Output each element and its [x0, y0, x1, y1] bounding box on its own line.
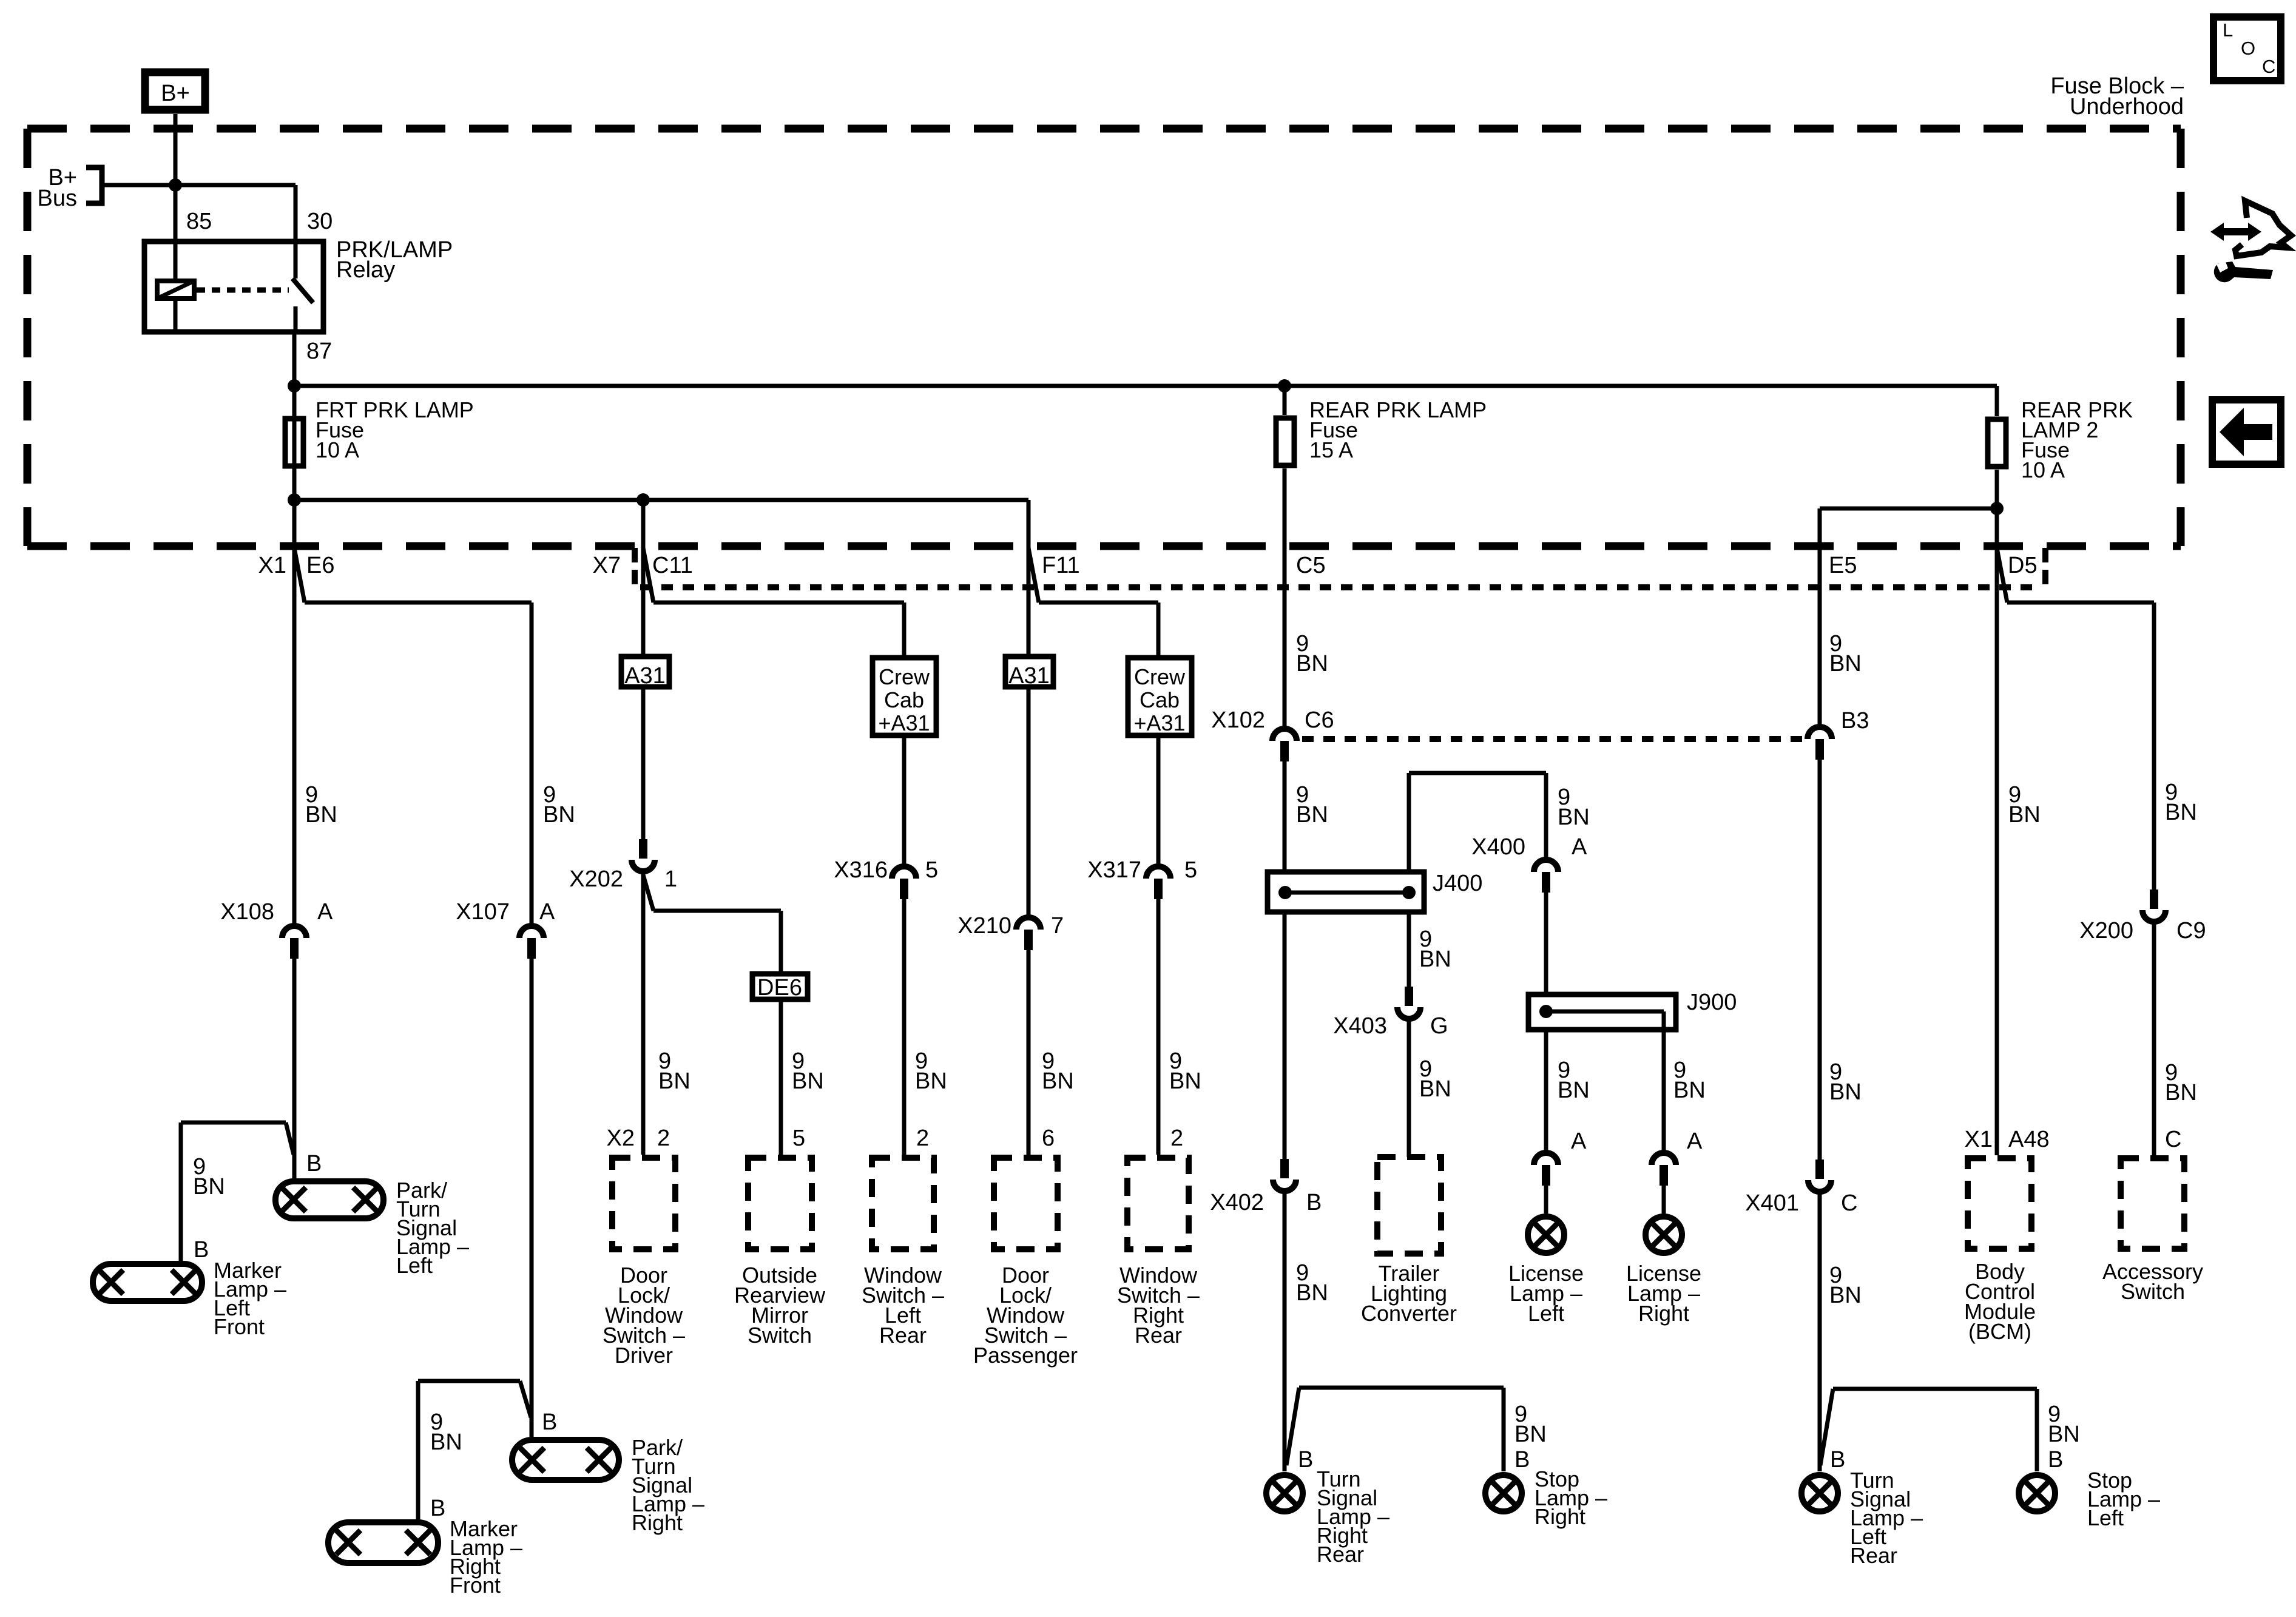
- connector license right pin A: [1652, 1153, 1676, 1165]
- box window switch - right rear: [1127, 1158, 1189, 1249]
- lamp stop - left: [2019, 1475, 2055, 1511]
- node rear rail junction: [1990, 502, 2004, 515]
- svg-text:Right: Right: [1535, 1504, 1585, 1529]
- svg-text:1: 1: [664, 866, 677, 892]
- wire J900 bar to license right: [1662, 1011, 1666, 1152]
- svg-text:BN: BN: [543, 802, 575, 828]
- svg-text:B: B: [542, 1409, 557, 1435]
- connector X107: [519, 926, 544, 938]
- svg-text:O: O: [2241, 38, 2255, 59]
- lamp stop - right: [1485, 1475, 1522, 1511]
- svg-text:Front: Front: [214, 1314, 265, 1339]
- connector license left pin A: [1534, 1153, 1558, 1165]
- svg-text:Switch: Switch: [748, 1323, 812, 1348]
- svg-text:BN: BN: [1558, 1078, 1590, 1103]
- wire D5 branch to accessory switch: [2007, 601, 2154, 605]
- svg-text:D5: D5: [2008, 553, 2038, 578]
- svg-text:2: 2: [916, 1126, 929, 1151]
- svg-text:E5: E5: [1829, 553, 1857, 578]
- box window switch - left rear: [872, 1158, 934, 1249]
- svg-text:C5: C5: [1296, 553, 1326, 578]
- svg-text:Front: Front: [450, 1573, 501, 1598]
- svg-text:X317: X317: [1087, 857, 1141, 883]
- wire X202 branch to DE6: [643, 875, 653, 911]
- svg-text:BN: BN: [1829, 651, 1862, 677]
- svg-text:BN: BN: [1419, 947, 1451, 972]
- wire rail to X400: [1544, 773, 1548, 857]
- wire stop-left branch: [1820, 1389, 1833, 1465]
- svg-text:BN: BN: [1829, 1283, 1862, 1308]
- svg-text:Right: Right: [632, 1510, 683, 1535]
- connector X400 A: [1534, 860, 1558, 872]
- wire front rail: [294, 498, 1028, 502]
- node front rail at 485: [288, 493, 301, 507]
- box door lock/window switch - driver: [612, 1158, 675, 1249]
- svg-text:+A31: +A31: [1133, 711, 1185, 735]
- fuse REAR PRK LAMP 2 10A: [1988, 419, 2006, 467]
- wire F11 branch to crew cab 2: [1039, 601, 1158, 605]
- svg-text:BN: BN: [1296, 802, 1328, 828]
- svg-text:A: A: [1687, 1129, 1703, 1154]
- svg-text:A48: A48: [2008, 1127, 2050, 1152]
- node front rail at 1060: [636, 493, 650, 507]
- wire D5 branch slant: [1997, 548, 2007, 603]
- wire DE6 to mirror switch: [779, 1002, 783, 1155]
- wire X316 to window switch left rear: [902, 899, 907, 1155]
- wire through FRT PRK LAMP fuse: [292, 416, 297, 500]
- svg-text:(BCM): (BCM): [1968, 1319, 2031, 1344]
- lamp turn signal - right rear: [1266, 1475, 1303, 1511]
- wire stop-right branch: [1286, 1388, 1299, 1465]
- svg-text:Bus: Bus: [38, 186, 77, 211]
- svg-text:B: B: [1830, 1447, 1845, 1473]
- box DE6: [752, 974, 808, 999]
- relay coil: [157, 281, 194, 299]
- lamp park/turn signal - left: [275, 1181, 383, 1218]
- connector X401 C: [1815, 1160, 1824, 1179]
- svg-text:BN: BN: [305, 802, 337, 828]
- wire A31 to X202: [641, 689, 646, 839]
- svg-text:L: L: [2223, 19, 2233, 41]
- svg-text:Left: Left: [396, 1253, 433, 1278]
- box Crew Cab +A31 (left rear): [873, 658, 936, 735]
- svg-text:B: B: [1298, 1447, 1313, 1473]
- box accessory switch: [2121, 1158, 2184, 1249]
- fuse FRT PRK LAMP 10A: [285, 419, 303, 466]
- wire X200 to accessory switch: [2152, 922, 2156, 1158]
- svg-text:2: 2: [1170, 1126, 1183, 1151]
- svg-text:BN: BN: [2165, 800, 2197, 825]
- connector X316 pin 5: [892, 866, 916, 879]
- box A31 (passenger): [1005, 657, 1053, 687]
- svg-text:87: 87: [306, 339, 332, 364]
- lamp marker - left front: [93, 1264, 202, 1301]
- wire relay pin 87: [294, 306, 298, 334]
- svg-text:Crew: Crew: [1134, 664, 1186, 689]
- svg-text:B: B: [306, 1151, 322, 1176]
- box Crew Cab +A31 (right rear): [1128, 658, 1192, 735]
- fuse REAR PRK LAMP 15A: [1276, 418, 1294, 465]
- wire X317 to window switch right rear: [1156, 899, 1161, 1155]
- svg-text:Converter: Converter: [1361, 1301, 1457, 1326]
- svg-text:BN: BN: [1419, 1076, 1451, 1102]
- svg-text:X7: X7: [593, 553, 621, 578]
- svg-text:BN: BN: [2048, 1422, 2080, 1447]
- wire to license left lamp: [1544, 1186, 1548, 1214]
- svg-text:Rear: Rear: [1317, 1542, 1364, 1567]
- wire J900 to license left: [1544, 1032, 1548, 1152]
- wire E6 down to park/turn lamp left: [292, 500, 297, 923]
- svg-text:B: B: [430, 1496, 445, 1521]
- wire E6 branch to X107: [305, 601, 532, 605]
- wire X108 to split: [292, 959, 297, 1178]
- box door lock/window switch - passenger: [994, 1158, 1058, 1249]
- wire B3 to X401: [1818, 760, 1822, 1160]
- svg-text:X108: X108: [220, 899, 274, 925]
- svg-text:X402: X402: [1210, 1190, 1264, 1215]
- wire E5 down: [1818, 508, 1822, 725]
- svg-text:E6: E6: [306, 553, 334, 578]
- svg-text:A: A: [317, 899, 333, 925]
- svg-text:BN: BN: [915, 1068, 947, 1094]
- wire J400 top rail: [1409, 771, 1546, 775]
- svg-text:B: B: [1514, 1447, 1530, 1473]
- svg-text:+A31: +A31: [878, 711, 930, 735]
- svg-text:BN: BN: [1042, 1068, 1074, 1094]
- left-arrow reference box: [2212, 400, 2281, 464]
- svg-text:10 A: 10 A: [316, 437, 359, 462]
- connector B3: [1808, 727, 1832, 739]
- svg-text:X102: X102: [1211, 707, 1265, 733]
- wire X102 to J400: [1283, 761, 1287, 869]
- connector X402 B: [1280, 1159, 1289, 1178]
- svg-text:5: 5: [925, 857, 938, 883]
- wire marker-left branch: [286, 1122, 294, 1155]
- wire X402 to turn signal right rear: [1283, 1192, 1287, 1471]
- connector X108: [282, 926, 306, 938]
- box A31 (driver): [621, 657, 669, 687]
- svg-text:Rear: Rear: [1135, 1323, 1182, 1348]
- svg-text:Switch: Switch: [2121, 1279, 2185, 1304]
- svg-text:Right: Right: [1638, 1301, 1689, 1326]
- svg-text:Cab: Cab: [1140, 687, 1180, 712]
- wire F11 branch slant: [1028, 548, 1039, 603]
- svg-text:B+: B+: [161, 81, 190, 106]
- wire B+ to relay coil: [174, 114, 178, 279]
- svg-text:BN: BN: [792, 1068, 824, 1094]
- svg-text:BN: BN: [1296, 651, 1328, 677]
- svg-text:J900: J900: [1687, 990, 1737, 1015]
- svg-text:A: A: [1571, 1129, 1587, 1154]
- svg-text:X2: X2: [607, 1126, 635, 1151]
- wire J400 to X403: [1407, 914, 1411, 987]
- wire rear rail to E5: [1820, 507, 1997, 511]
- svg-text:Cab: Cab: [884, 687, 924, 712]
- connector X210 pin 7: [1016, 917, 1041, 930]
- svg-text:A31: A31: [624, 663, 666, 689]
- connector X102 C6: [1272, 729, 1297, 741]
- wire to license right lamp: [1662, 1186, 1666, 1214]
- wire X400 to J900: [1544, 893, 1548, 992]
- wire crew cab 2 to X317: [1156, 738, 1161, 864]
- svg-text:C11: C11: [652, 553, 693, 578]
- svg-text:B: B: [194, 1237, 209, 1263]
- wire C5 down to X102: [1283, 468, 1287, 726]
- relay PRK/LAMP box: [144, 241, 323, 332]
- svg-text:BN: BN: [1829, 1079, 1862, 1105]
- svg-text:5: 5: [792, 1126, 805, 1151]
- lamp license - left: [1528, 1217, 1564, 1253]
- svg-text:A: A: [1572, 834, 1587, 860]
- svg-text:15 A: 15 A: [1309, 437, 1353, 462]
- lamp park/turn signal - right: [512, 1440, 619, 1480]
- svg-text:B: B: [2048, 1447, 2063, 1473]
- wire D5 down to BCM: [1995, 549, 1999, 1155]
- svg-text:Passenger: Passenger: [973, 1343, 1078, 1368]
- wire X202 to door lock switch driver: [641, 873, 646, 1155]
- connector X200 C9: [2150, 890, 2158, 909]
- box body control module: [1968, 1158, 2031, 1249]
- svg-text:BN: BN: [1673, 1078, 1706, 1103]
- svg-text:J400: J400: [1433, 871, 1482, 896]
- svg-text:Rear: Rear: [1850, 1543, 1897, 1568]
- wire through REAR PRK LAMP fuse: [1283, 386, 1287, 415]
- box trailer lighting converter: [1377, 1157, 1441, 1254]
- relay dashed actuation link: [197, 288, 289, 293]
- svg-text:F11: F11: [1042, 553, 1080, 578]
- svg-text:C: C: [2262, 56, 2275, 77]
- svg-text:Crew: Crew: [879, 664, 930, 689]
- wire fuse2 to E5/D5 junction: [1995, 470, 1999, 549]
- lamp license - right: [1646, 1217, 1682, 1253]
- LOC reference box: [2213, 17, 2281, 81]
- svg-text:C6: C6: [1305, 707, 1334, 733]
- svg-text:Relay: Relay: [336, 257, 395, 283]
- wire A31 to X210: [1027, 689, 1031, 915]
- splice J900: [1528, 994, 1676, 1030]
- svg-text:C: C: [2165, 1127, 2181, 1152]
- separator X7: [632, 548, 638, 587]
- svg-text:BN: BN: [1558, 805, 1590, 830]
- wire X107 to park/turn right lamp: [530, 959, 534, 1437]
- svg-text:X200: X200: [2079, 918, 2133, 944]
- svg-text:10 A: 10 A: [2021, 457, 2065, 482]
- dotted connector row line: [640, 584, 2039, 590]
- connector X202 pin 1: [639, 839, 647, 859]
- svg-text:X403: X403: [1333, 1013, 1387, 1039]
- svg-text:B: B: [1306, 1190, 1322, 1215]
- svg-text:2: 2: [657, 1126, 670, 1151]
- wire coil to relay box bottom: [174, 301, 178, 334]
- wire X401 to turn signal left rear: [1818, 1192, 1822, 1471]
- svg-text:X316: X316: [834, 857, 888, 883]
- svg-text:X210: X210: [957, 913, 1011, 939]
- svg-text:B3: B3: [1841, 708, 1869, 734]
- wire C11 branch to crew cab: [653, 601, 904, 605]
- svg-text:X107: X107: [456, 899, 510, 925]
- box outside rearview mirror switch: [748, 1158, 812, 1249]
- wire X210 to door lock switch passenger: [1027, 950, 1031, 1155]
- svg-text:BN: BN: [1169, 1068, 1201, 1094]
- svg-text:X400: X400: [1471, 834, 1525, 860]
- wire C11 down: [641, 500, 646, 654]
- wire J400 to X402: [1283, 914, 1287, 1159]
- dotted pass-through line X102 to B3: [1302, 736, 1805, 742]
- svg-text:C: C: [1841, 1190, 1857, 1216]
- wire crew cab to X316: [902, 738, 907, 864]
- svg-text:A: A: [539, 899, 555, 925]
- separator after D5: [2042, 548, 2048, 587]
- wire B+ bus: [102, 183, 295, 187]
- svg-text:BN: BN: [430, 1430, 462, 1455]
- wire C11 branch slant: [643, 548, 653, 603]
- svg-text:G: G: [1430, 1013, 1448, 1039]
- svg-text:Driver: Driver: [615, 1343, 673, 1368]
- relay switch blade: [292, 279, 313, 303]
- svg-text:C9: C9: [2176, 918, 2206, 944]
- node B+ bus junction: [169, 178, 182, 192]
- svg-text:A31: A31: [1008, 663, 1050, 689]
- svg-text:X1: X1: [258, 553, 286, 578]
- wire marker-right branch: [520, 1381, 531, 1417]
- wire F11 down: [1027, 500, 1031, 654]
- fuse block - underhood dashed boundary box: [27, 125, 2181, 133]
- svg-text:Underhood: Underhood: [2070, 94, 2184, 120]
- wire rail corner down to REAR PRK LAMP 2 fuse: [1995, 386, 1999, 416]
- svg-text:BN: BN: [1514, 1422, 1547, 1447]
- svg-text:DE6: DE6: [757, 975, 802, 1001]
- wire X403 to trailer converter: [1407, 1019, 1411, 1157]
- svg-text:BN: BN: [2165, 1080, 2197, 1106]
- node rail junction at 485: [288, 379, 301, 393]
- wire pin87 down to rail: [292, 334, 297, 416]
- svg-text:85: 85: [186, 209, 212, 234]
- wire main feed rail: [294, 384, 1997, 388]
- B+ terminal box: [145, 72, 205, 110]
- svg-text:7: 7: [1051, 913, 1064, 939]
- svg-text:BN: BN: [2008, 802, 2041, 828]
- connector-view icon (arrow and wrench): [2210, 201, 2291, 282]
- lamp marker - right front: [328, 1522, 438, 1563]
- splice J400: [1268, 872, 1424, 912]
- svg-text:Left: Left: [1528, 1301, 1564, 1326]
- svg-text:6: 6: [1042, 1126, 1055, 1151]
- svg-text:X401: X401: [1745, 1190, 1799, 1216]
- node rail junction at 2117: [1278, 379, 1291, 393]
- svg-text:Left: Left: [2087, 1505, 2124, 1530]
- wire E6 branch slant: [294, 548, 305, 603]
- svg-text:BN: BN: [658, 1068, 690, 1094]
- svg-text:Rear: Rear: [879, 1323, 927, 1348]
- lamp turn signal - left rear: [1801, 1475, 1838, 1511]
- connector X317 pin 5: [1146, 866, 1170, 879]
- svg-text:5: 5: [1184, 857, 1197, 883]
- svg-text:X202: X202: [569, 866, 623, 892]
- svg-text:BN: BN: [193, 1174, 225, 1200]
- wire to relay pin 30: [294, 185, 298, 279]
- svg-text:BN: BN: [1296, 1280, 1328, 1306]
- svg-text:30: 30: [307, 209, 333, 234]
- connector X403 G: [1405, 987, 1413, 1006]
- svg-text:X1: X1: [1965, 1127, 1993, 1152]
